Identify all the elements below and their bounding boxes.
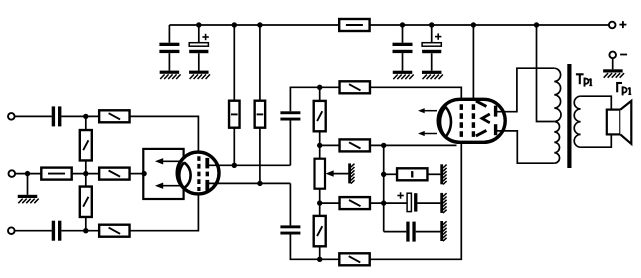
transformer Tr1 core [567,64,571,168]
wire Tr1 secondary top to speaker [581,96,612,109]
wire row1 junction down to R5 [85,116,87,130]
wire rail to V2 screen grid (grid2 top lead) [472,25,474,105]
resistor R10 (vertical, 0.125W) [314,101,326,131]
wire C2 to R4 [61,230,99,232]
node junction at box left edge [141,171,146,176]
resistor R4 (0.125W) [99,225,129,237]
wire C10 to ground [431,53,433,70]
wire R7 to anode1 node [233,128,235,166]
wire rail down to C4 [168,25,170,43]
resistor R7 (anode load 1, vertical 0.5W) [229,101,240,128]
node junction cathode bus / R16 [381,172,386,177]
capacitor C2 (input coupling, bottom channel) [52,221,62,241]
wire R1 to V1 grid (top) [130,116,199,157]
wire lower node down to R14 [319,203,321,216]
node junction at vertical divider / row2 [83,171,88,176]
capacitor C10 (electrolytic filter) [422,33,441,53]
label Gr1 [616,82,631,95]
wire bus to R16 [384,173,397,175]
cathode arrow 2 (points left) [155,183,180,189]
capacitor C1 (input coupling, top channel) [52,106,62,126]
wire anode1 node up through C3 [289,121,291,166]
wire R5 to R6 [85,160,87,186]
wire R11 to V2 cathode [370,144,457,146]
wire R3 to V1 cathode box [130,173,145,175]
wire R12 to lower node [319,189,321,203]
label Tr1 [576,74,592,86]
wire R16 to chassis [427,173,440,175]
V2 grid 2 (dashed column) [472,104,475,137]
wire rail down to C10 [431,25,433,43]
wire V2 anode1 to Tr1 primary top [496,68,554,112]
wire R8 to anode2 node [259,128,261,184]
grid arrow 1 of V2 (points left) [418,108,437,113]
capacitor C5 (electrolytic filter) [189,34,209,53]
input terminal X2 (middle input) [9,170,16,177]
wire R9 to V2 grid1 (top) [370,87,461,104]
capacitor C3 (coupling to splitter top) [280,111,300,120]
wire B+ rail left segment [169,24,339,26]
capacitor C8 (bypass) [406,222,415,242]
V2 cathode lens right arc [446,107,452,137]
V1 anode bar (upper) [205,158,209,169]
ground (earth) under X5 [603,69,624,77]
resistor R15 (0.125W) [339,253,369,265]
node junction anode1 / R7 [232,163,237,168]
node junction rail / Tr1 centre tap [534,22,539,27]
wire rail down to R8 [259,25,261,101]
ground (earth) under C5 [189,71,210,79]
wire rail down to C9 [402,25,404,43]
wire X1 to C1 [15,115,52,117]
resistor R9 (0.125W) [340,81,370,93]
V1 cathode lens left arc [179,162,184,188]
resistor R6 (vertical, 0.125W) [80,187,92,217]
resistor R2 (0.5W) [41,168,71,180]
wire C1 to R1 [61,115,99,117]
node junction splitter top [317,85,322,90]
resistor R13 (0.125W) [340,197,370,209]
cathode arrow 1 (points left) [155,158,180,164]
V2 anode plate 1 (slanted) [476,101,487,107]
V2 anode bar (lower) [494,124,497,135]
wire B+ rail right segment [370,24,609,26]
V2 cathode lens left arc [440,107,446,137]
output terminal X5 (-) [609,52,616,59]
V2 anode plate 2 (slanted) [476,130,487,136]
node junction rail / C5 [196,22,201,27]
label - [620,54,627,56]
label + [619,21,626,28]
resistor R17 (rail filter, 0.5W) [339,19,369,31]
loudspeaker Gr1 cone [620,101,631,144]
output terminal X4 (+) [609,22,616,29]
resistor R5 (vertical, 0.125W) [80,130,92,160]
ground (earth) under C10 [422,71,443,79]
wire R15 to V2 grid2 bottom lead [370,138,462,260]
wire X5 to ground [612,58,614,69]
ground (earth) under C9 [393,71,414,79]
tube V2 envelope (output beam tetrode) [438,99,505,142]
wire X3 to C2 [15,230,52,232]
wire mid node to R11 [320,144,340,146]
wire rail down to C5 [198,25,200,43]
wire C6 to bottom rail [290,235,339,260]
wire anode2 node down through C6 [289,183,291,225]
capacitor C6 (coupling to splitter bottom) [280,225,300,234]
resistor R1 (0.125W) [99,110,129,122]
resistor R14 (vertical, 0.125W) [314,216,326,246]
chassis ground at R12 wiper [350,163,355,183]
V1 cathode lens right arc [184,162,191,188]
potentiometer R12 (hum balance) [315,159,326,189]
ground (earth) under C4 [160,71,181,79]
wire R14 to bottom rail [319,246,321,259]
grid arrow 2 of V2 (points left) [418,131,437,136]
cathode screen box of V1 [143,149,183,199]
capacitor C7 (cathode bypass, electrolytic) [397,192,417,211]
node junction rail / R8 [257,22,262,27]
wire V1 anode1 to coupling cap C3 [208,164,291,166]
wire rail down to R7 [233,25,235,101]
wire junction to ground [27,174,29,195]
node junction rail / C10 [429,22,434,27]
wire R13 to cathode bus / C7 row [370,202,407,204]
wire V2 anode2 to Tr1 primary bottom [496,131,554,163]
wire rail to Tr1 centre tap [537,25,555,122]
wire cathode bus to C8 [384,231,407,233]
wire C4 to ground [168,53,170,71]
wire C5 to ground [198,53,200,70]
chassis ground at C7 [442,193,447,213]
wire lower node to R13 [320,202,340,204]
node junction anode2 / R8 [257,181,262,186]
ground (earth) at middle input [18,195,39,203]
wire R10 to mid node [319,131,321,145]
transformer Tr1 primary winding [554,68,561,163]
transformer Tr1 secondary winding [574,96,580,147]
wire X2 to R2 [15,173,41,175]
resistor R3 (0.125W) [99,168,129,180]
wire splitter bus: top node to R10 [319,87,321,101]
wire splitter top node to R9 [320,86,340,88]
capacitor C9 (filter) [393,43,413,53]
node junction rail / R7 [232,22,237,27]
node junction at ground tap [25,171,30,176]
R12 wiper arrow to chassis [325,170,348,176]
V1 grid (dashed column) [197,156,200,191]
V2 grid 1 (dashed column) [460,104,463,137]
wire R4 to V1 grid (bottom) [130,191,199,231]
V1 anode bar (lower) [205,180,209,191]
node junction bottom rail / R14 [317,257,322,262]
wire C7 to chassis [417,202,440,204]
V2 anode bar (upper) [494,106,497,117]
input terminal X3 (bottom input) [8,227,15,234]
node junction rail / V2 screen grid [471,22,476,27]
wire cathode bus vertical [383,145,385,231]
node junction cathode bus mid [381,200,386,205]
node junction at R6 bottom / row3 [83,228,88,233]
input terminal X1 (top input) [8,113,15,120]
V1 grid dash (middle of right column) [206,172,209,177]
wire C8 to chassis [416,231,441,233]
node junction splitter lower [317,200,322,205]
resistor R8 (anode load 2, vertical 0.5W) [255,101,266,128]
wire C9 to ground [402,53,404,71]
wire V1 anode2 to coupling cap C6 [208,182,291,184]
capacitor C4 (filter) [159,43,179,53]
resistor R16 (cathode bias, 1W) [397,168,427,180]
resistor R11 (0.125W) [340,139,370,151]
loudspeaker Gr1 driver [607,110,621,135]
chassis ground at R16 [442,164,447,184]
wire R2 to R3 [72,173,100,175]
tube V1 envelope (double triode) [177,152,219,194]
V2 beam plate chevron [482,114,490,123]
node junction splitter mid [317,143,322,148]
node junction rail / C9 [400,22,405,27]
chassis ground at C8 [442,221,447,241]
wire R6 to row3 [85,217,87,231]
node junction cathode bus top [381,143,386,148]
wire Tr1 secondary bottom to speaker [581,134,612,147]
node junction at R5 top / row1 [83,114,88,119]
wire C3 to splitter top node [290,87,319,111]
wire mid node down to potentiometer R12 [319,145,321,158]
